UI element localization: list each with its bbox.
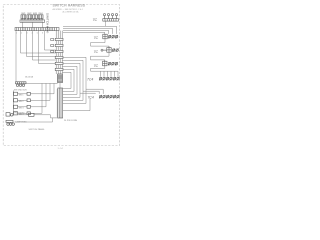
- wire: [15, 31, 17, 82]
- wire: [105, 21, 107, 26]
- wire: [101, 71, 119, 77]
- svg-text:7C: 7C: [94, 50, 99, 54]
- splice SP4: [55, 56, 63, 58]
- wire: [63, 57, 86, 103]
- splice SP5: [55, 62, 63, 64]
- switch S3: [33, 15, 38, 20]
- svg-text:SWITCH HARNESS: SWITCH HARNESS: [53, 4, 86, 8]
- wire: [27, 31, 56, 57]
- wire: [63, 26, 117, 34]
- wire: [45, 31, 56, 50]
- wire: [13, 115, 58, 118]
- svg-text:ALL WIRES 16 GA: ALL WIRES 16 GA: [63, 11, 80, 14]
- splice SP6: [55, 68, 63, 70]
- splice S8: [27, 112, 30, 115]
- connector P1: [103, 14, 119, 22]
- terminal strip TS1: [20, 20, 45, 22]
- wire: [21, 22, 23, 27]
- svg-text:AS WIRED — SEE NOTES 1, 2 & 4: AS WIRED — SEE NOTES 1, 2 & 4: [53, 8, 83, 11]
- wire: [41, 22, 43, 27]
- stub box B1: [51, 39, 54, 41]
- wire: [63, 98, 90, 110]
- fuse F3: [14, 105, 18, 108]
- svg-text:7C: 7C: [93, 18, 98, 22]
- splice S5: [27, 92, 30, 95]
- switch S4: [38, 15, 43, 20]
- splice SP2: [55, 44, 63, 46]
- fuse F1: [14, 92, 18, 95]
- svg-text:SWITCH PANEL: SWITCH PANEL: [29, 128, 46, 131]
- wire: [31, 22, 33, 27]
- splice SP1: [55, 38, 63, 40]
- wire: [18, 83, 43, 113]
- wire: [21, 31, 56, 53]
- splice S7: [27, 105, 30, 108]
- wire: [18, 83, 55, 93]
- splice S9: [29, 113, 35, 116]
- connector P3: [101, 46, 119, 52]
- svg-text:PWR FEED: PWR FEED: [14, 112, 25, 114]
- splice S6: [27, 99, 30, 102]
- connector J2: [57, 88, 63, 118]
- wire: [63, 72, 71, 88]
- svg-text:7C: 7C: [94, 64, 99, 68]
- connector C3: [6, 120, 14, 125]
- connector P4: [103, 60, 118, 66]
- fuse F2: [14, 99, 18, 102]
- wire: [18, 83, 47, 106]
- connector P6: [99, 95, 119, 99]
- svg-text:24 PIN CONN: 24 PIN CONN: [64, 120, 78, 122]
- connector P2: [103, 34, 118, 39]
- connector P5: [99, 77, 119, 81]
- ground bus: [13, 91, 15, 116]
- connector strip J1: [15, 28, 59, 31]
- splice SP3: [55, 50, 63, 52]
- switch S2: [27, 15, 32, 20]
- svg-text:1 - 14: 1 - 14: [58, 148, 64, 150]
- wire: [63, 32, 105, 34]
- wire: [63, 63, 80, 97]
- wire: [18, 83, 51, 100]
- wire: [63, 60, 83, 100]
- wire: [63, 69, 74, 91]
- wire: [59, 83, 61, 88]
- wire: [14, 118, 52, 122]
- wire: [91, 52, 110, 60]
- svg-text:7C: 7C: [94, 36, 99, 40]
- wire: [26, 82, 58, 84]
- svg-text:7C4: 7C4: [88, 96, 94, 100]
- fuse F4: [14, 112, 18, 115]
- wire: [33, 31, 56, 60]
- wire bundle: [56, 31, 62, 74]
- connector C2: [6, 113, 13, 117]
- wire: [63, 30, 109, 34]
- svg-text:5A 16GA: 5A 16GA: [25, 76, 34, 79]
- wire: [39, 31, 56, 64]
- connector C1: [16, 82, 27, 87]
- wire: [46, 26, 48, 28]
- stub box B3: [51, 51, 54, 53]
- wire: [63, 28, 113, 34]
- svg-text:1 2 3 4 5 6 7: 1 2 3 4 5 6 7: [16, 33, 50, 35]
- cable sleeve W1: [58, 74, 63, 83]
- wire: [80, 89, 103, 94]
- stub box B2: [51, 45, 54, 47]
- border frame: [3, 5, 119, 146]
- wire: [91, 39, 110, 46]
- wire: [91, 66, 119, 71]
- svg-text:7C4: 7C4: [87, 77, 93, 81]
- svg-text:SW GND BUS: SW GND BUS: [14, 89, 28, 91]
- switch S1: [21, 15, 26, 20]
- wire: [63, 66, 77, 94]
